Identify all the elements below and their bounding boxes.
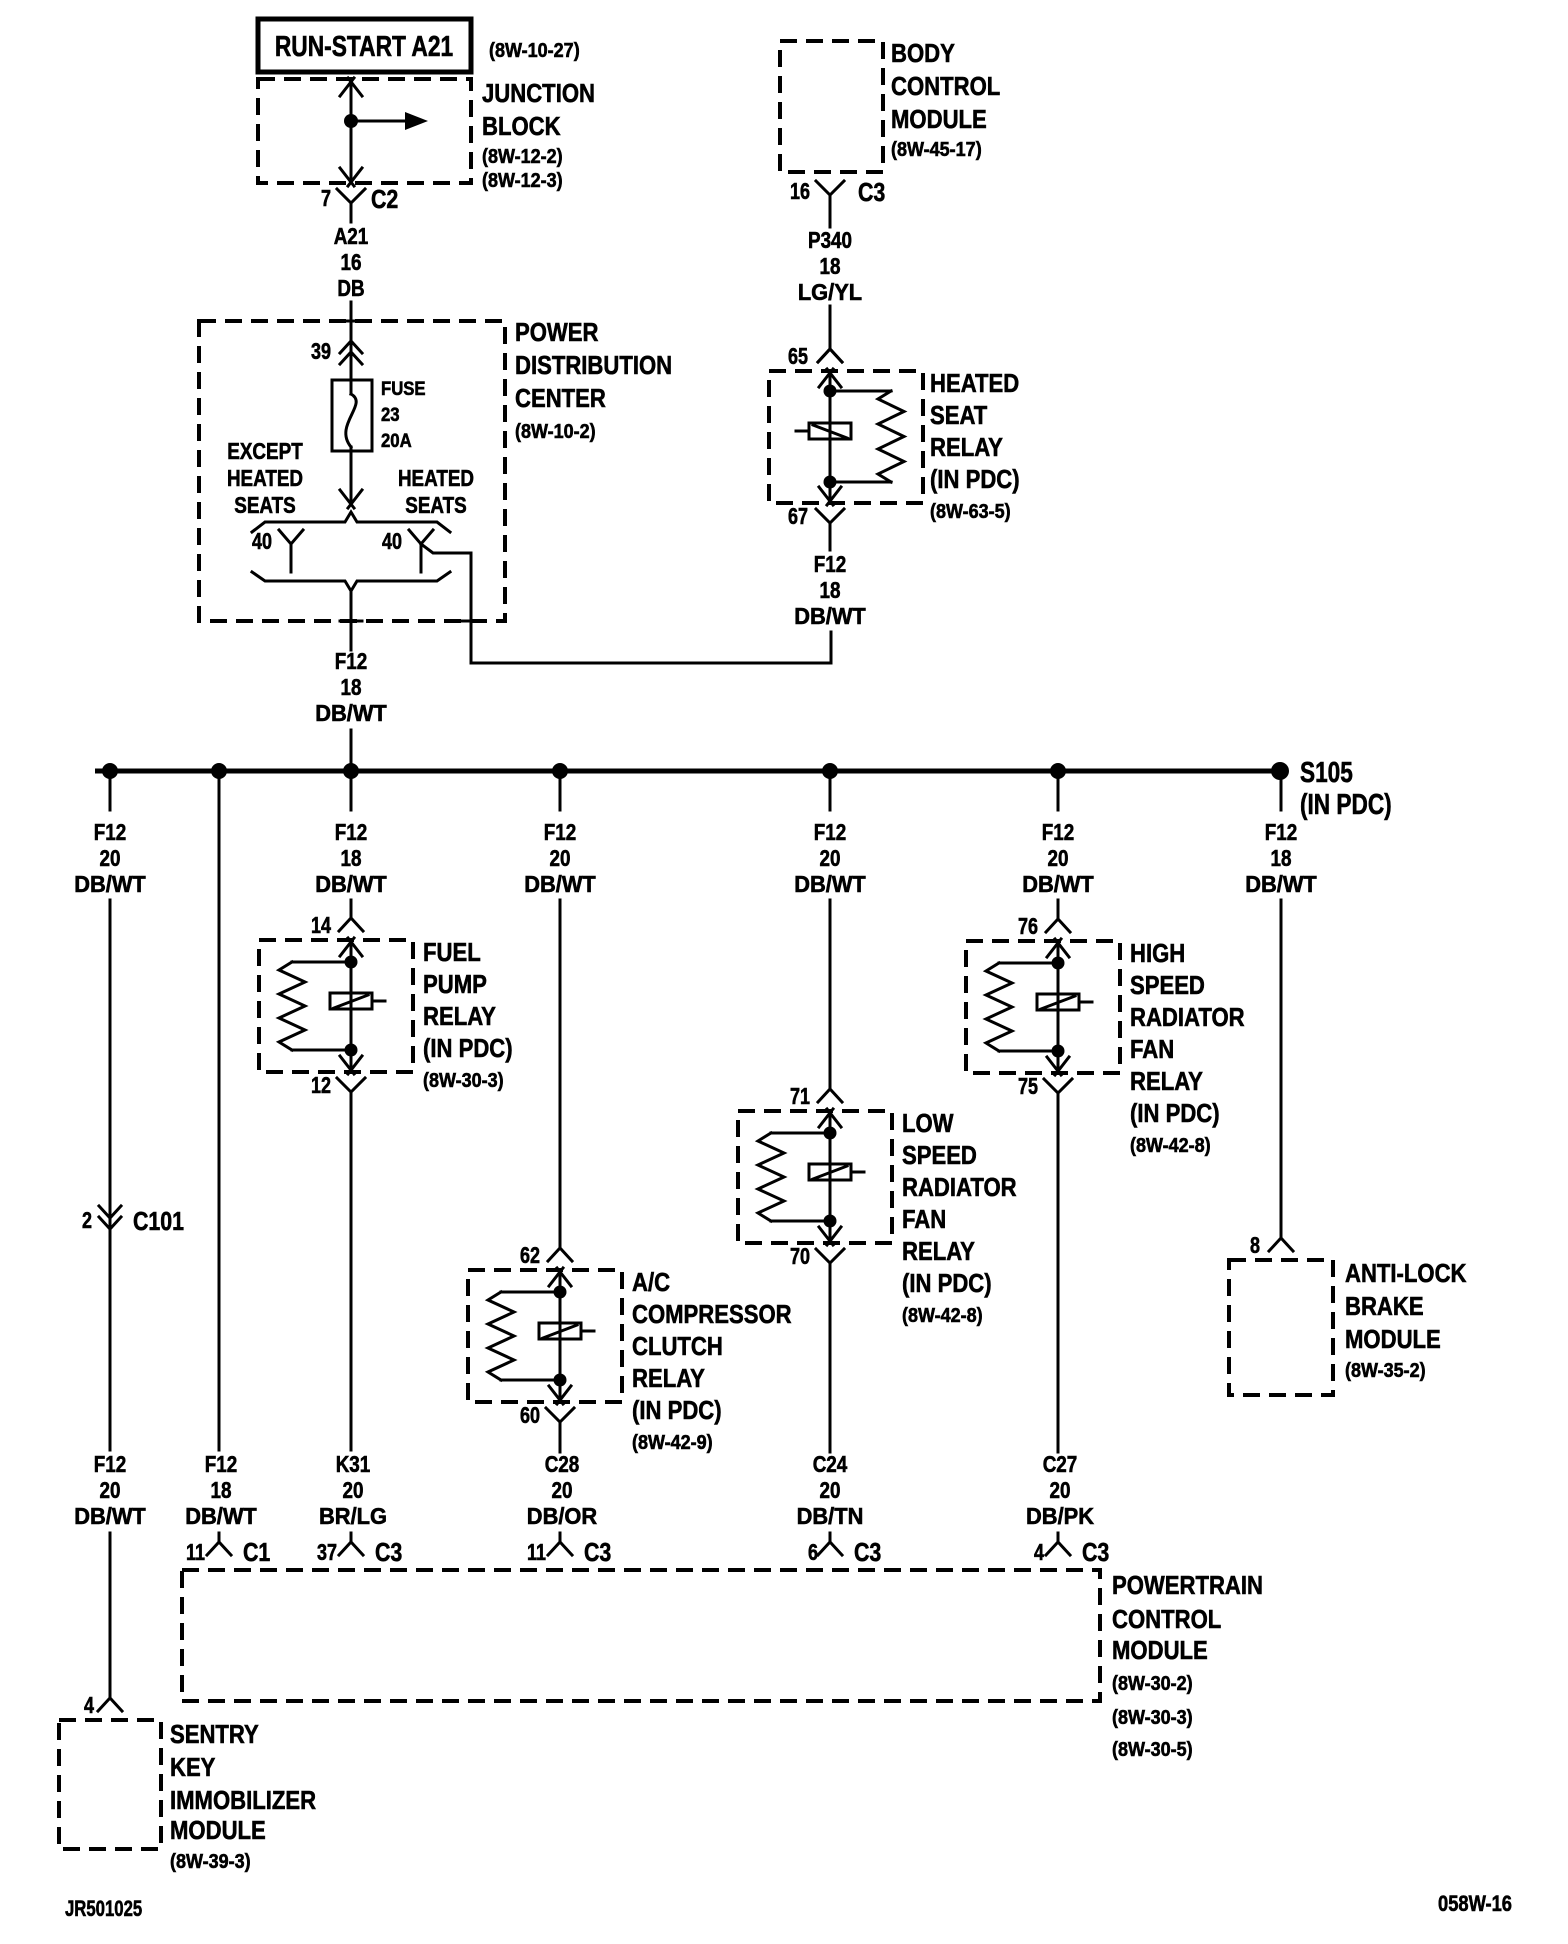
- svg-text:(8W-63-5): (8W-63-5): [930, 501, 1011, 523]
- svg-text:F12: F12: [814, 819, 847, 845]
- wire branch 1: F12 20 DB/WT to sentry key module: [109, 779, 112, 810]
- anti-lock brake module: [1229, 1258, 1467, 1395]
- resistor (relay coil suppression): [771, 1132, 830, 1135]
- resistor (relay coil suppression): [999, 962, 1058, 965]
- svg-text:(IN PDC): (IN PDC): [423, 1033, 513, 1063]
- pin 70 connector (bottom): [816, 1249, 844, 1263]
- svg-text:S105: S105: [1300, 757, 1353, 789]
- svg-text:DB/WT: DB/WT: [74, 871, 146, 897]
- connector C3 pin 11: [527, 1537, 611, 1567]
- junction block J1: [258, 78, 471, 186]
- svg-text:RELAY: RELAY: [930, 432, 1003, 462]
- svg-text:DB/WT: DB/WT: [74, 1503, 146, 1529]
- wire splice bus S105: [95, 769, 1285, 774]
- wire through junction block: [350, 80, 353, 183]
- wire into relay (arrow up): [819, 369, 841, 387]
- svg-text:DB: DB: [337, 275, 364, 301]
- svg-text:F12: F12: [814, 551, 847, 577]
- node bus junction x=110: [102, 763, 118, 779]
- svg-text:20: 20: [1048, 845, 1069, 871]
- wire branch 4: F12 20 DB/WT to A/C compressor clutch relay: [559, 779, 562, 810]
- node bus junction x=219: [211, 763, 227, 779]
- svg-text:75: 75: [1018, 1073, 1038, 1099]
- svg-text:65: 65: [788, 343, 808, 369]
- svg-text:JR501025: JR501025: [65, 1896, 142, 1921]
- pin 76 connector (top): [1046, 919, 1070, 932]
- svg-text:BODY: BODY: [891, 38, 955, 68]
- svg-text:P340: P340: [808, 227, 852, 253]
- svg-text:FUEL: FUEL: [423, 937, 481, 967]
- label EXCEPT HEATED SEATS: [227, 438, 303, 518]
- resistor (relay coil suppression): [501, 1291, 560, 1294]
- label S105 (IN PDC): [1300, 757, 1392, 821]
- svg-text:12: 12: [311, 1072, 331, 1098]
- junction dot: [824, 476, 837, 489]
- svg-text:SPEED: SPEED: [1130, 970, 1205, 1000]
- svg-text:F12: F12: [335, 648, 368, 674]
- svg-text:(IN PDC): (IN PDC): [1300, 789, 1392, 821]
- label power distribution center: [515, 317, 672, 443]
- svg-text:6: 6: [808, 1539, 818, 1565]
- heated seat relay K-HS dashed box: [769, 371, 923, 503]
- svg-text:C3: C3: [1082, 1537, 1109, 1567]
- svg-text:20: 20: [552, 1477, 573, 1503]
- svg-text:20: 20: [820, 845, 841, 871]
- svg-text:40: 40: [252, 528, 272, 554]
- svg-text:RADIATOR: RADIATOR: [902, 1172, 1017, 1202]
- svg-text:20A: 20A: [381, 431, 412, 452]
- svg-text:DB/WT: DB/WT: [794, 603, 866, 629]
- svg-text:HEATED: HEATED: [398, 465, 474, 491]
- sentry key immobilizer module: [59, 1719, 316, 1873]
- wire branch 2: F12 18 DB/WT to PCM C1: [218, 779, 221, 1450]
- svg-text:MODULE: MODULE: [891, 104, 987, 134]
- body control module: [780, 38, 1000, 172]
- node junction dot: [344, 114, 358, 128]
- svg-text:SEAT: SEAT: [930, 400, 987, 430]
- wire K31 20 BR/LG: [350, 1105, 353, 1450]
- wire from fuse with arrow down: [350, 451, 353, 505]
- svg-text:RELAY: RELAY: [902, 1236, 975, 1266]
- svg-text:C3: C3: [375, 1537, 402, 1567]
- relay heated seat relay K-HS: [769, 349, 1020, 536]
- svg-text:C101: C101: [133, 1206, 184, 1236]
- wire arrow to other circuits: [351, 120, 406, 123]
- svg-text:2: 2: [82, 1207, 92, 1233]
- svg-text:(IN PDC): (IN PDC): [902, 1268, 992, 1298]
- node bus junction x=1058: [1050, 763, 1066, 779]
- svg-text:RADIATOR: RADIATOR: [1130, 1002, 1245, 1032]
- junction dot: [1052, 957, 1065, 970]
- svg-text:SENTRY: SENTRY: [170, 1719, 259, 1749]
- svg-text:C3: C3: [584, 1537, 611, 1567]
- svg-text:(IN PDC): (IN PDC): [632, 1395, 722, 1425]
- wire F12 18 DB/WT (PDC output): [350, 591, 353, 650]
- svg-text:058W-16: 058W-16: [1438, 1891, 1512, 1916]
- svg-text:RELAY: RELAY: [423, 1001, 496, 1031]
- connector C1 pin 11: [186, 1537, 270, 1567]
- svg-text:DB/WT: DB/WT: [524, 871, 596, 897]
- svg-text:(8W-42-8): (8W-42-8): [1130, 1135, 1211, 1157]
- svg-text:KEY: KEY: [170, 1752, 215, 1782]
- wire branch 5: F12 20 DB/WT to low speed radiator fan relay: [829, 779, 832, 810]
- connector C2 pin 7: [321, 184, 398, 214]
- svg-text:SEATS: SEATS: [405, 492, 467, 518]
- svg-text:DISTRIBUTION: DISTRIBUTION: [515, 350, 672, 380]
- svg-text:F12: F12: [205, 1451, 238, 1477]
- A/C compressor clutch relay dashed box: [468, 1270, 622, 1402]
- relay coil box: [809, 423, 851, 439]
- svg-text:18: 18: [211, 1477, 232, 1503]
- svg-text:LG/YL: LG/YL: [798, 279, 862, 305]
- pin 62 connector (top): [548, 1248, 572, 1261]
- svg-text:SPEED: SPEED: [902, 1140, 977, 1170]
- wire branch 6: F12 20 DB/WT to high speed radiator fan relay: [1057, 779, 1060, 810]
- svg-text:C3: C3: [858, 177, 885, 207]
- svg-text:RELAY: RELAY: [1130, 1066, 1203, 1096]
- power distribution center box: [199, 321, 505, 621]
- splice merge brace: [252, 572, 450, 591]
- svg-text:JUNCTION: JUNCTION: [482, 78, 595, 108]
- svg-text:CLUTCH: CLUTCH: [632, 1331, 723, 1361]
- svg-text:(8W-12-3): (8W-12-3): [482, 170, 563, 192]
- wire A21 16 DB: [350, 213, 353, 222]
- svg-text:DB/OR: DB/OR: [527, 1503, 598, 1529]
- svg-text:RELAY: RELAY: [632, 1363, 705, 1393]
- relay A/C compressor clutch relay: [468, 1242, 792, 1454]
- svg-text:DB/WT: DB/WT: [315, 700, 387, 726]
- svg-text:20: 20: [343, 1477, 364, 1503]
- svg-text:20: 20: [1050, 1477, 1071, 1503]
- label junction block: [482, 78, 595, 192]
- svg-text:BR/LG: BR/LG: [319, 1503, 387, 1529]
- svg-text:LOW: LOW: [902, 1108, 954, 1138]
- svg-text:F12: F12: [94, 1451, 127, 1477]
- svg-text:(8W-30-5): (8W-30-5): [1112, 1739, 1193, 1761]
- wire C24 20 DB/TN: [829, 1276, 832, 1452]
- svg-text:60: 60: [520, 1402, 540, 1428]
- fuse 23 20A: [332, 379, 426, 452]
- svg-text:16: 16: [341, 249, 362, 275]
- svg-text:F12: F12: [1265, 819, 1298, 845]
- wire out of relay (arrow down): [549, 1386, 571, 1404]
- svg-text:18: 18: [341, 674, 362, 700]
- svg-text:C24: C24: [813, 1451, 848, 1477]
- svg-text:4: 4: [84, 1692, 94, 1718]
- svg-text:(8W-12-2): (8W-12-2): [482, 146, 563, 168]
- junction dot: [345, 956, 358, 969]
- svg-text:PUMP: PUMP: [423, 969, 487, 999]
- high speed radiator fan relay dashed box: [966, 941, 1120, 1073]
- tick: wire crosses PDC bottom edge: [460, 620, 482, 623]
- wire into relay (arrow up): [819, 1109, 841, 1127]
- svg-text:DB/WT: DB/WT: [1022, 871, 1094, 897]
- wire P340 18 LG/YL: [829, 213, 832, 227]
- pin 71 connector (top): [818, 1089, 842, 1102]
- svg-text:(8W-30-3): (8W-30-3): [423, 1070, 504, 1092]
- wire into relay (arrow up): [340, 938, 362, 956]
- svg-text:RUN-START A21: RUN-START A21: [275, 31, 453, 63]
- svg-text:F12: F12: [1042, 819, 1075, 845]
- svg-text:C27: C27: [1043, 1451, 1078, 1477]
- svg-text:(8W-10-27): (8W-10-27): [489, 40, 580, 62]
- svg-text:(8W-30-2): (8W-30-2): [1112, 1673, 1193, 1695]
- relay fuel pump relay: [259, 912, 513, 1105]
- splice split brace: [252, 512, 450, 532]
- svg-text:(8W-42-9): (8W-42-9): [632, 1432, 713, 1454]
- pin 40 connector (except heated seats): [252, 528, 303, 572]
- svg-text:18: 18: [341, 845, 362, 871]
- svg-text:C28: C28: [545, 1451, 580, 1477]
- relay coil box: [330, 993, 372, 1009]
- svg-text:(IN PDC): (IN PDC): [930, 464, 1020, 494]
- svg-text:C1: C1: [243, 1537, 270, 1567]
- svg-text:C3: C3: [854, 1537, 881, 1567]
- resistor (relay coil suppression): [830, 390, 891, 393]
- svg-text:37: 37: [317, 1539, 337, 1565]
- wire out of relay (arrow down): [819, 1227, 841, 1245]
- svg-text:(8W-10-2): (8W-10-2): [515, 421, 596, 443]
- svg-text:20: 20: [820, 1477, 841, 1503]
- svg-text:DB/TN: DB/TN: [797, 1503, 864, 1529]
- svg-text:(8W-39-3): (8W-39-3): [170, 1851, 251, 1873]
- junction dot: [345, 1044, 358, 1057]
- svg-text:70: 70: [790, 1243, 810, 1269]
- svg-text:F12: F12: [94, 819, 127, 845]
- low speed radiator fan relay dashed box: [738, 1111, 892, 1243]
- svg-text:20: 20: [100, 1477, 121, 1503]
- svg-text:MODULE: MODULE: [170, 1815, 266, 1845]
- svg-text:FAN: FAN: [1130, 1034, 1174, 1064]
- svg-text:DB/WT: DB/WT: [1245, 871, 1317, 897]
- svg-text:HIGH: HIGH: [1130, 938, 1185, 968]
- svg-text:HEATED: HEATED: [227, 465, 303, 491]
- svg-text:F12: F12: [335, 819, 368, 845]
- svg-text:14: 14: [311, 912, 331, 938]
- svg-text:7: 7: [321, 185, 331, 211]
- connector C3 pin 16: [790, 177, 885, 213]
- svg-text:FUSE: FUSE: [381, 379, 426, 400]
- svg-text:(8W-45-17): (8W-45-17): [891, 139, 982, 161]
- pin 14 connector (top): [339, 918, 363, 931]
- svg-text:CONTROL: CONTROL: [891, 71, 1000, 101]
- relay low speed radiator fan relay: [738, 1083, 1017, 1327]
- label HEATED SEATS: [398, 465, 474, 518]
- svg-text:40: 40: [382, 528, 402, 554]
- svg-text:ANTI-LOCK: ANTI-LOCK: [1345, 1258, 1467, 1288]
- junction dot: [1052, 1045, 1065, 1058]
- pin 39 connector (double chevron): [311, 338, 362, 364]
- wire into relay (arrow up): [549, 1268, 571, 1286]
- tick: wire crosses PDC top edge: [340, 320, 362, 323]
- svg-text:18: 18: [820, 253, 841, 279]
- svg-text:11: 11: [186, 1539, 205, 1565]
- svg-text:71: 71: [790, 1083, 810, 1109]
- svg-text:CENTER: CENTER: [515, 383, 606, 413]
- wire out of relay (arrow down): [819, 487, 841, 505]
- svg-text:POWERTRAIN: POWERTRAIN: [1112, 1570, 1263, 1600]
- fuel pump relay dashed box: [259, 940, 413, 1072]
- wire branch 7: F12 18 DB/WT to anti-lock brake module: [1280, 779, 1283, 810]
- wire branch 3: F12 18 DB/WT to fuel pump relay: [350, 779, 353, 810]
- relay coil box: [539, 1323, 581, 1339]
- wire out of relay (arrow down): [340, 1056, 362, 1074]
- connector C101 pin 2 (double chevron): [82, 1206, 184, 1236]
- svg-text:(IN PDC): (IN PDC): [1130, 1098, 1220, 1128]
- svg-text:8: 8: [1250, 1232, 1260, 1258]
- wire from heated-seats pin to heated seat relay feed: [421, 544, 831, 663]
- svg-text:POWER: POWER: [515, 317, 599, 347]
- wire C28 20 DB/OR: [559, 1435, 562, 1452]
- svg-text:67: 67: [788, 503, 808, 529]
- arrow down out of junction block: [340, 168, 362, 186]
- pin 75 connector (bottom): [1044, 1079, 1072, 1093]
- svg-text:DB/PK: DB/PK: [1026, 1503, 1094, 1529]
- svg-text:C2: C2: [371, 184, 398, 214]
- svg-text:A21: A21: [334, 223, 369, 249]
- svg-text:DB/WT: DB/WT: [794, 871, 866, 897]
- node bus junction x=830: [822, 763, 838, 779]
- svg-text:(8W-35-2): (8W-35-2): [1345, 1360, 1426, 1382]
- connector C3 pin 6: [808, 1537, 881, 1567]
- svg-text:23: 23: [381, 405, 400, 426]
- svg-text:COMPRESSOR: COMPRESSOR: [632, 1299, 792, 1329]
- wire out of relay (arrow down): [1047, 1057, 1069, 1075]
- svg-text:A/C: A/C: [632, 1267, 670, 1297]
- svg-text:16: 16: [790, 178, 810, 204]
- powertrain control module: [182, 1570, 1263, 1761]
- svg-text:EXCEPT: EXCEPT: [227, 438, 303, 464]
- svg-text:K31: K31: [336, 1451, 371, 1477]
- node bus junction x=560: [552, 763, 568, 779]
- svg-text:(8W-42-8): (8W-42-8): [902, 1305, 983, 1327]
- connector C3 pin 37: [317, 1537, 402, 1567]
- svg-text:18: 18: [1271, 845, 1292, 871]
- svg-text:BLOCK: BLOCK: [482, 111, 561, 141]
- svg-text:MODULE: MODULE: [1112, 1635, 1208, 1665]
- svg-text:F12: F12: [544, 819, 577, 845]
- wire into relay (arrow up): [1047, 939, 1069, 957]
- node bus junction x=351: [343, 763, 359, 779]
- wire F12 18 DB/WT from heated seat relay: [829, 523, 832, 550]
- relay coil box: [1037, 994, 1079, 1010]
- connector C3 pin 4: [1034, 1537, 1109, 1567]
- arrow up to RUN-START: [340, 78, 362, 96]
- svg-text:62: 62: [520, 1242, 540, 1268]
- relay coil box: [809, 1164, 851, 1180]
- junction dot: [554, 1374, 567, 1387]
- svg-text:MODULE: MODULE: [1345, 1324, 1441, 1354]
- pin 40 connector (heated seats): [382, 528, 433, 572]
- svg-text:SEATS: SEATS: [234, 492, 296, 518]
- svg-text:HEATED: HEATED: [930, 368, 1019, 398]
- svg-text:18: 18: [820, 577, 841, 603]
- pin connector (bottom): [816, 509, 844, 523]
- svg-text:IMMOBILIZER: IMMOBILIZER: [170, 1785, 316, 1815]
- pin 12 connector (bottom): [337, 1078, 365, 1092]
- svg-text:BRAKE: BRAKE: [1345, 1291, 1424, 1321]
- svg-text:DB/WT: DB/WT: [185, 1503, 257, 1529]
- junction dot: [824, 1127, 837, 1140]
- junction dot: [824, 385, 837, 398]
- svg-text:76: 76: [1018, 913, 1038, 939]
- svg-text:11: 11: [527, 1539, 546, 1565]
- svg-text:CONTROL: CONTROL: [1112, 1604, 1221, 1634]
- svg-text:39: 39: [311, 338, 331, 364]
- svg-text:DB/WT: DB/WT: [315, 871, 387, 897]
- svg-text:4: 4: [1034, 1539, 1044, 1565]
- svg-text:20: 20: [100, 845, 121, 871]
- wire C27 20 DB/PK: [1057, 1106, 1060, 1452]
- svg-text:(8W-30-3): (8W-30-3): [1112, 1707, 1193, 1729]
- junction dot: [824, 1215, 837, 1228]
- junction dot: [554, 1286, 567, 1299]
- node S105 end dot: [1271, 762, 1289, 780]
- resistor (relay coil suppression): [292, 961, 351, 964]
- relay high speed radiator fan relay: [966, 913, 1245, 1157]
- svg-text:20: 20: [550, 845, 571, 871]
- pin connector (top): [818, 349, 842, 362]
- node RUN-START A21 feed box: [258, 19, 471, 72]
- svg-text:FAN: FAN: [902, 1204, 946, 1234]
- pin 60 connector (bottom): [546, 1408, 574, 1422]
